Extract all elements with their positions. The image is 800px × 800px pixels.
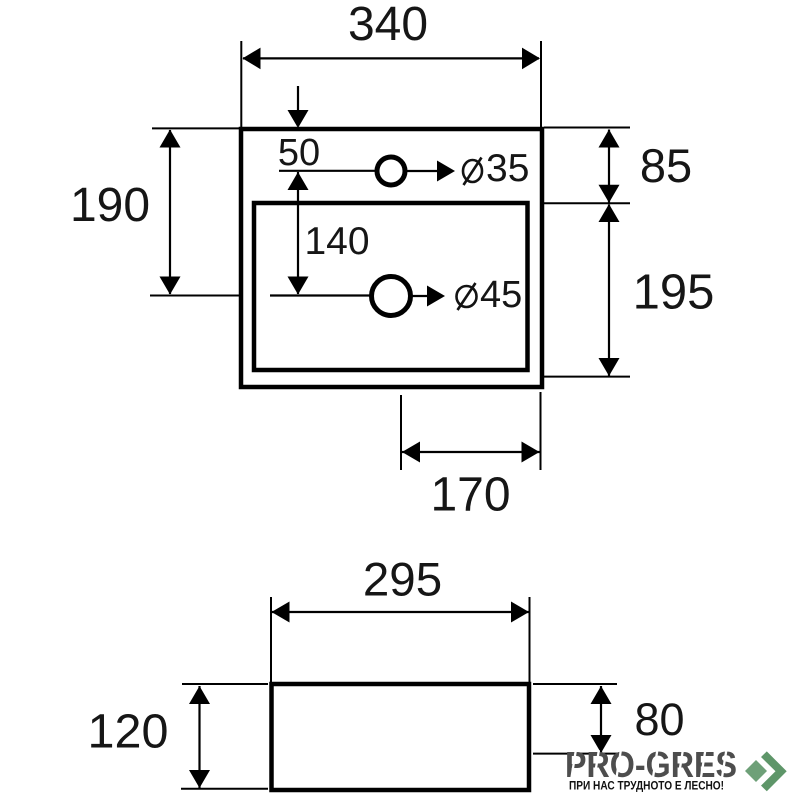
svg-text:340: 340: [348, 0, 428, 51]
svg-text:45: 45: [480, 274, 522, 316]
svg-text:50: 50: [278, 132, 320, 174]
svg-text:140: 140: [304, 220, 369, 263]
svg-text:195: 195: [633, 266, 715, 320]
svg-text:170: 170: [430, 469, 510, 522]
svg-text:120: 120: [88, 704, 169, 758]
svg-text:35: 35: [486, 147, 529, 190]
svg-text:295: 295: [363, 554, 442, 607]
svg-text:190: 190: [70, 179, 150, 232]
svg-text:80: 80: [634, 694, 684, 745]
svg-text:ПРИ НАС ТРУДНОТО Е ЛЕСНО!: ПРИ НАС ТРУДНОТО Е ЛЕСНО!: [569, 779, 724, 793]
svg-text:85: 85: [640, 139, 692, 192]
